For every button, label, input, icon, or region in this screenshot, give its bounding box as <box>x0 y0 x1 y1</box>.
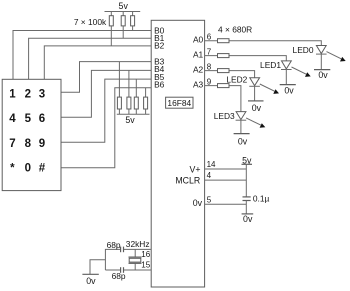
wire A2 to LED2 <box>205 71 255 78</box>
ground osc <box>82 273 98 275</box>
svg-text:LED0: LED0 <box>293 45 314 55</box>
svg-text:14: 14 <box>207 160 216 169</box>
svg-text:V+: V+ <box>189 164 200 174</box>
svg-text:0v: 0v <box>238 137 248 147</box>
svg-text:7: 7 <box>9 138 15 150</box>
svg-text:A3: A3 <box>193 80 204 90</box>
svg-text:5v: 5v <box>242 156 252 166</box>
svg-text:4: 4 <box>207 171 212 180</box>
resistor pull-up B4 <box>127 70 131 114</box>
svg-text:16F84: 16F84 <box>167 98 191 108</box>
ground LED1 <box>280 84 296 86</box>
svg-text:9: 9 <box>39 138 45 150</box>
capacitor C1 0.1u <box>243 197 251 214</box>
LED3 <box>236 112 266 134</box>
IC U1 16F84 body <box>151 20 204 287</box>
svg-text:5v: 5v <box>119 1 129 11</box>
svg-text:5: 5 <box>207 195 212 204</box>
svg-text:6: 6 <box>39 113 45 125</box>
wire V+ pin14 <box>205 168 247 170</box>
resistor pull-up B6 <box>144 88 148 115</box>
svg-text:0v: 0v <box>86 276 96 286</box>
wire pin16 osc <box>105 249 151 270</box>
svg-text:LED2: LED2 <box>226 74 247 84</box>
resistor pull-up to B1 <box>121 12 125 39</box>
LED0 <box>316 46 346 70</box>
wire 5v to cap <box>245 164 247 197</box>
wire B4 net <box>61 70 151 117</box>
svg-text:0v: 0v <box>193 198 203 208</box>
wire A0 to LED0 <box>205 41 322 46</box>
IC name label 16F84 <box>166 97 193 108</box>
svg-text:16: 16 <box>141 250 150 259</box>
svg-text:0: 0 <box>25 163 31 175</box>
wire B6 net <box>61 88 151 168</box>
wire B2 net <box>44 46 151 79</box>
svg-text:3: 3 <box>39 88 45 100</box>
resistor R A1 680R <box>218 54 230 58</box>
svg-text:68p: 68p <box>107 240 121 250</box>
svg-text:0.1µ: 0.1µ <box>253 194 270 204</box>
svg-text:0v: 0v <box>243 214 253 224</box>
5v supply rail (mid pull-ups) <box>117 113 150 115</box>
svg-text:B6: B6 <box>154 79 165 89</box>
keypad <box>2 79 61 190</box>
resistor pull-up to B2 <box>109 12 113 46</box>
resistor pull-up to B0 <box>131 12 135 31</box>
svg-text:8: 8 <box>25 138 32 150</box>
svg-text:*: * <box>10 163 15 175</box>
LED2 <box>249 78 279 101</box>
wire B5 net <box>61 79 151 142</box>
wire pin15 osc <box>105 269 151 271</box>
wire MCLR pin4 <box>205 179 247 181</box>
svg-text:15: 15 <box>141 260 150 269</box>
svg-text:0v: 0v <box>252 103 262 113</box>
wire B3 net <box>61 62 151 93</box>
svg-text:7 × 100k: 7 × 100k <box>74 17 107 27</box>
svg-text:A2: A2 <box>193 65 204 75</box>
resistor pull-up B5 <box>134 79 138 114</box>
capacitor 68p top <box>121 247 124 253</box>
wire B1 net <box>29 38 152 79</box>
resistor pull-up B3 <box>117 62 121 115</box>
svg-text:LED1: LED1 <box>260 60 281 70</box>
svg-text:A1: A1 <box>193 50 204 60</box>
ground LED3 <box>234 133 250 135</box>
svg-text:5v: 5v <box>125 115 135 125</box>
wire B0 net <box>13 31 151 80</box>
wire osc to ground <box>90 260 105 275</box>
svg-text:#: # <box>39 163 46 175</box>
LED1 <box>281 61 311 85</box>
svg-text:68p: 68p <box>112 271 126 281</box>
ground LED2 <box>248 100 264 102</box>
svg-text:2: 2 <box>25 88 31 100</box>
svg-text:1: 1 <box>9 88 16 100</box>
svg-text:0v: 0v <box>284 85 294 95</box>
ground cap <box>242 213 254 215</box>
svg-text:4 × 680R: 4 × 680R <box>218 25 252 35</box>
wire A1 to LED1 <box>205 56 287 61</box>
svg-text:MCLR: MCLR <box>175 176 200 186</box>
wire A3 to LED3 <box>205 86 241 112</box>
resistor R A2 680R <box>218 69 230 73</box>
svg-text:5: 5 <box>25 113 32 125</box>
resistor R A0 680R <box>218 39 230 43</box>
5v supply rail (top pull-ups) <box>105 11 141 13</box>
svg-text:32kHz: 32kHz <box>126 239 150 249</box>
5v supply (right) <box>242 163 253 165</box>
svg-text:0v: 0v <box>318 70 328 80</box>
ground LED0 <box>314 69 330 71</box>
crystal X1 32kHz <box>129 249 142 270</box>
svg-text:B2: B2 <box>154 41 165 51</box>
svg-text:4: 4 <box>9 113 16 125</box>
capacitor 68p bottom <box>121 267 124 273</box>
svg-text:LED3: LED3 <box>214 111 235 121</box>
svg-text:A0: A0 <box>193 35 204 45</box>
resistor R A3 680R <box>218 84 230 88</box>
wire 0v pin5 <box>205 203 247 205</box>
